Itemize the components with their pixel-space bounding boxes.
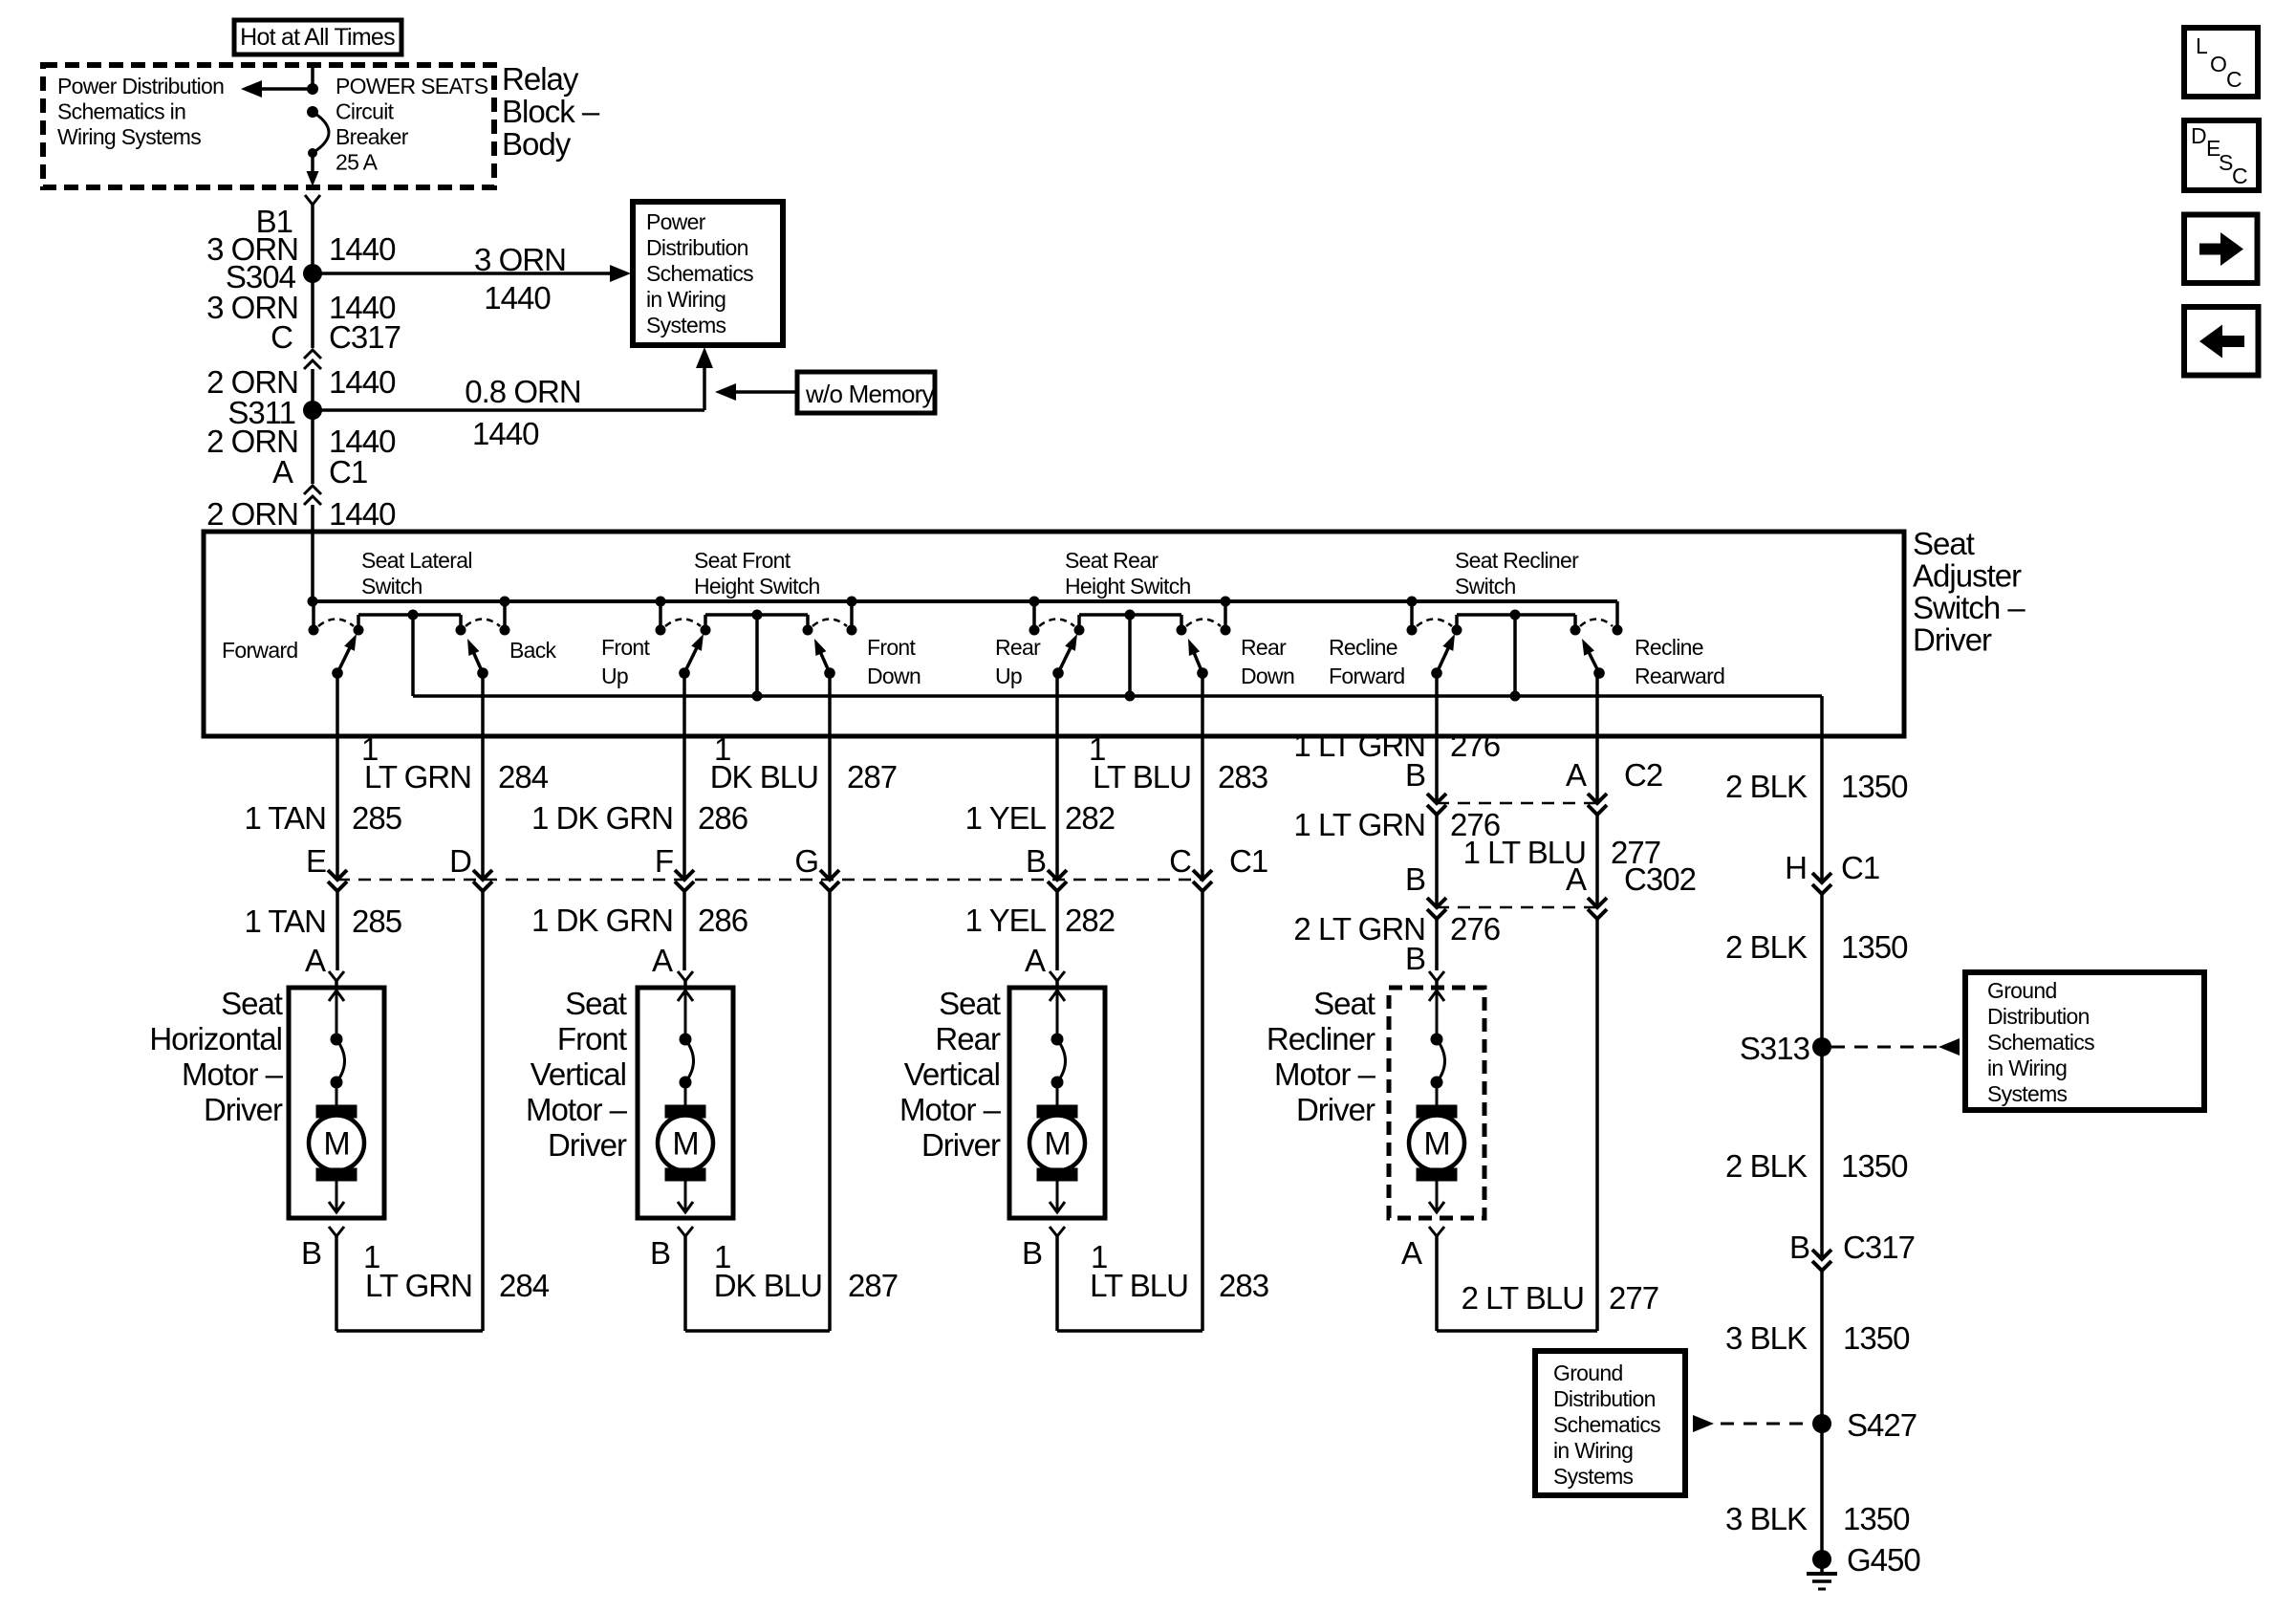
svg-text:Up: Up bbox=[601, 664, 628, 688]
label: pin F (C1) bbox=[655, 843, 673, 879]
wire: F through C1 bbox=[675, 673, 694, 970]
svg-text:Recline: Recline bbox=[1635, 635, 1703, 660]
label: S313 bbox=[1740, 1031, 1809, 1066]
label: 2 LT GRN 276 (below C302) bbox=[1293, 911, 1500, 947]
seat front height switch bbox=[656, 597, 857, 702]
label: seat recliner motor - driver bbox=[1267, 986, 1376, 1127]
svg-text:0.8 ORN: 0.8 ORN bbox=[465, 374, 580, 409]
svg-text:A: A bbox=[1566, 861, 1587, 897]
svg-text:in Wiring: in Wiring bbox=[646, 287, 726, 312]
label: 0.8 ORN bbox=[465, 374, 580, 409]
svg-text:C302: C302 bbox=[1624, 861, 1696, 897]
svg-text:in Wiring: in Wiring bbox=[1987, 1056, 2067, 1080]
seat rear height switch bbox=[1029, 597, 1231, 702]
svg-text:Seat: Seat bbox=[1313, 986, 1375, 1021]
label: pin B (seat front vertical motor - driver) bbox=[650, 1235, 670, 1271]
svg-text:2 LT GRN: 2 LT GRN bbox=[1293, 911, 1425, 947]
label: 3 ORN (branch) bbox=[474, 242, 566, 277]
svg-text:D: D bbox=[449, 843, 471, 879]
label: Seat Lateral Switch bbox=[361, 548, 472, 599]
svg-text:G450: G450 bbox=[1847, 1542, 1920, 1578]
wire: G through C1 bbox=[820, 673, 839, 1331]
label: pin B (C302) bbox=[1405, 861, 1425, 897]
label: seat rear vertical motor - driver bbox=[899, 986, 1002, 1163]
svg-text:E: E bbox=[306, 843, 326, 879]
svg-text:Seat: Seat bbox=[1913, 526, 1975, 561]
label: pin E (C1) bbox=[306, 843, 326, 879]
label: Rear Down bbox=[1241, 635, 1294, 688]
svg-text:Driver: Driver bbox=[1296, 1092, 1375, 1127]
legend box: arrow left bbox=[2184, 307, 2259, 376]
svg-text:Wiring Systems: Wiring Systems bbox=[57, 124, 201, 149]
label: 1440 (below S311) bbox=[329, 424, 396, 459]
label: 2 BLK 1350 (second) bbox=[1725, 929, 1908, 965]
svg-text:C1: C1 bbox=[329, 454, 367, 490]
label: 1 LT GRN 284 (circuit 284 upper) bbox=[361, 731, 549, 795]
svg-text:Forward: Forward bbox=[1329, 664, 1405, 688]
label: pin A (seat front vertical motor) bbox=[652, 943, 673, 978]
label: 1 LT BLU 283 (motor loop) bbox=[1090, 1239, 1268, 1303]
svg-text:A: A bbox=[305, 943, 326, 978]
svg-text:285: 285 bbox=[352, 800, 401, 836]
label: C1 connector (main feed) bbox=[329, 454, 367, 490]
label: 2 ORN (below C1) bbox=[206, 496, 298, 532]
svg-text:Seat Recliner: Seat Recliner bbox=[1455, 548, 1579, 573]
wire: bus inside switch bbox=[313, 599, 1617, 603]
label: 1 TAN 285 (above C1) bbox=[244, 800, 401, 836]
svg-text:Rearward: Rearward bbox=[1635, 664, 1724, 688]
svg-text:Motor –: Motor – bbox=[899, 1092, 1002, 1127]
label: 2 LT BLU 277 (motor loop) bbox=[1462, 1280, 1659, 1316]
label: 1 LT GRN 276 (above C2) bbox=[1293, 728, 1500, 763]
node: bus entry junction bbox=[308, 597, 318, 607]
svg-text:Front: Front bbox=[557, 1021, 627, 1056]
svg-text:C1: C1 bbox=[1229, 843, 1267, 879]
svg-text:2 ORN: 2 ORN bbox=[206, 496, 298, 532]
svg-text:Recliner: Recliner bbox=[1267, 1021, 1375, 1056]
flag box: Hot at All Times bbox=[234, 20, 401, 54]
svg-text:1 TAN: 1 TAN bbox=[244, 903, 326, 939]
svg-text:C317: C317 bbox=[1843, 1230, 1915, 1265]
svg-text:M: M bbox=[1044, 1126, 1070, 1163]
label: pin B (seat horizontal motor - driver) bbox=[301, 1235, 321, 1271]
connector C317 inline chevrons bbox=[304, 273, 321, 410]
svg-text:Horizontal: Horizontal bbox=[149, 1021, 282, 1056]
svg-text:C: C bbox=[2226, 67, 2242, 92]
svg-text:Seat Front: Seat Front bbox=[694, 548, 791, 573]
label: 1 LT GRN 276 (below C2) bbox=[1293, 807, 1500, 842]
svg-text:Systems: Systems bbox=[1553, 1464, 1634, 1489]
label: 1 DK GRN 286 (above C1) bbox=[531, 800, 747, 836]
svg-text:Body: Body bbox=[502, 126, 572, 162]
label: G450 bbox=[1847, 1542, 1920, 1578]
svg-text:Driver: Driver bbox=[1913, 622, 1992, 658]
box: Ground Distribution Schematics in Wiring Systems (right) bbox=[1965, 972, 2204, 1110]
svg-text:2 BLK: 2 BLK bbox=[1725, 769, 1808, 804]
box: Power Distribution Schematics in Wiring Systems bbox=[633, 202, 783, 345]
svg-text:284: 284 bbox=[498, 759, 549, 795]
ground G450 bbox=[1807, 1550, 1837, 1589]
legend box: DESC bbox=[2184, 120, 2259, 190]
label: 2 ORN (below S311) bbox=[206, 424, 298, 459]
label: pin B / C317 bbox=[1789, 1230, 1915, 1265]
label: 1 DK BLU 287 (circuit 287 upper) bbox=[710, 731, 897, 795]
label: 1 YEL 282 (above C1) bbox=[965, 800, 1115, 836]
svg-text:Seat: Seat bbox=[221, 986, 283, 1021]
label: Back bbox=[509, 638, 557, 663]
wire: recliner A through C2 and C302 bbox=[1588, 673, 1607, 1331]
label: Seat Recliner Switch bbox=[1455, 548, 1579, 599]
label: 1 LT GRN 284 (motor loop) bbox=[363, 1239, 550, 1303]
svg-text:287: 287 bbox=[848, 1268, 898, 1303]
label: 1 LT BLU 283 (circuit 283 upper) bbox=[1089, 731, 1267, 795]
svg-text:C2: C2 bbox=[1624, 757, 1662, 793]
label: pin A (seat horizontal motor) bbox=[305, 943, 326, 978]
label: seat horizontal motor - driver bbox=[149, 986, 283, 1127]
label: pin H / C1 bbox=[1785, 850, 1879, 885]
svg-text:Up: Up bbox=[995, 664, 1022, 688]
label: pin B (C2) bbox=[1405, 757, 1425, 793]
label: 2 BLK 1350 (third) bbox=[1725, 1148, 1908, 1184]
svg-text:POWER SEATS: POWER SEATS bbox=[336, 74, 488, 98]
wire: S304 branch to power distribution bbox=[313, 265, 631, 282]
svg-text:Systems: Systems bbox=[646, 313, 726, 337]
svg-text:3 ORN: 3 ORN bbox=[474, 242, 566, 277]
svg-text:Rear: Rear bbox=[1241, 635, 1287, 660]
svg-text:Seat Lateral: Seat Lateral bbox=[361, 548, 472, 573]
svg-text:A: A bbox=[1401, 1235, 1422, 1271]
svg-text:287: 287 bbox=[847, 759, 897, 795]
svg-text:Schematics: Schematics bbox=[1987, 1030, 2094, 1055]
svg-text:Distribution: Distribution bbox=[1553, 1386, 1656, 1411]
label: S304 bbox=[226, 259, 296, 294]
svg-text:276: 276 bbox=[1450, 911, 1500, 947]
label: 1440 (below C1) bbox=[329, 496, 396, 532]
seat lateral switch bbox=[309, 597, 510, 697]
label: Recline Rearward bbox=[1635, 635, 1724, 688]
label: C317 connector bbox=[329, 319, 401, 355]
svg-text:1440: 1440 bbox=[484, 280, 551, 316]
svg-text:Front: Front bbox=[601, 635, 651, 660]
seat recliner switch bbox=[1407, 597, 1623, 702]
label: 3 ORN (above S304) bbox=[206, 231, 298, 267]
svg-text:1 DK GRN: 1 DK GRN bbox=[531, 800, 673, 836]
motor: seat front vertical motor - driver bbox=[638, 971, 830, 1331]
svg-text:G: G bbox=[794, 843, 818, 879]
svg-text:1 DK GRN: 1 DK GRN bbox=[531, 903, 673, 938]
svg-text:1440: 1440 bbox=[329, 231, 396, 267]
svg-text:1350: 1350 bbox=[1843, 1501, 1910, 1536]
svg-text:Hot at All Times: Hot at All Times bbox=[240, 24, 395, 51]
svg-text:Vertical: Vertical bbox=[904, 1056, 1000, 1092]
node S427 splice bbox=[1812, 1414, 1831, 1433]
svg-text:M: M bbox=[672, 1126, 698, 1163]
label: pin C bbox=[271, 319, 292, 355]
svg-text:DK BLU: DK BLU bbox=[710, 759, 818, 795]
label: 1440 (above S304) bbox=[329, 231, 396, 267]
pin B1 connector chevron bbox=[305, 195, 320, 273]
svg-text:C317: C317 bbox=[329, 319, 401, 355]
svg-text:LT GRN: LT GRN bbox=[365, 1268, 472, 1303]
label: 3 ORN (below S304) bbox=[206, 290, 298, 325]
label: Front Down bbox=[867, 635, 921, 688]
svg-text:Down: Down bbox=[1241, 664, 1294, 688]
svg-text:B: B bbox=[1405, 757, 1425, 793]
label: Seat Rear Height Switch bbox=[1065, 548, 1191, 599]
svg-text:B: B bbox=[1405, 861, 1425, 897]
svg-text:A: A bbox=[1025, 943, 1046, 978]
svg-text:B: B bbox=[301, 1235, 321, 1271]
label: S427 bbox=[1847, 1407, 1917, 1443]
svg-text:276: 276 bbox=[1450, 728, 1500, 763]
svg-text:Front: Front bbox=[867, 635, 917, 660]
svg-text:Seat: Seat bbox=[939, 986, 1001, 1021]
node S304 splice bbox=[303, 264, 322, 283]
label: 1440 (branch) bbox=[484, 280, 551, 316]
wire: C through C1 bbox=[1193, 673, 1212, 1331]
label: pin A (seat rear vertical motor) bbox=[1025, 943, 1046, 978]
svg-text:Ground: Ground bbox=[1987, 978, 2057, 1003]
svg-text:1 YEL: 1 YEL bbox=[965, 800, 1047, 836]
label: Power Distribution Schematics in Wiring Systems (relay box) bbox=[57, 74, 224, 149]
svg-text:M: M bbox=[323, 1126, 349, 1163]
svg-text:1440: 1440 bbox=[329, 364, 396, 400]
label: pin B (C1) bbox=[1026, 843, 1046, 879]
svg-text:Block –: Block – bbox=[502, 94, 600, 129]
label: pin B (seat rear vertical motor - driver) bbox=[1022, 1235, 1042, 1271]
svg-text:Rear: Rear bbox=[935, 1021, 1001, 1056]
relay block dashed box (Relay Block - Body) bbox=[43, 65, 494, 187]
label: seat front vertical motor - driver bbox=[526, 986, 628, 1163]
svg-text:Motor –: Motor – bbox=[526, 1092, 628, 1127]
svg-text:Switch –: Switch – bbox=[1913, 590, 2025, 625]
svg-text:Down: Down bbox=[867, 664, 921, 688]
svg-text:C: C bbox=[2232, 163, 2247, 188]
svg-text:B: B bbox=[1789, 1230, 1809, 1265]
label: Seat Front Height Switch bbox=[694, 548, 820, 599]
label: Forward bbox=[222, 638, 298, 663]
svg-text:S: S bbox=[2219, 150, 2233, 175]
svg-text:Adjuster: Adjuster bbox=[1913, 558, 2022, 594]
svg-text:C: C bbox=[1169, 843, 1191, 879]
svg-text:A: A bbox=[652, 943, 673, 978]
wire: D through C1 bbox=[473, 673, 492, 1331]
svg-text:Power Distribution: Power Distribution bbox=[57, 74, 224, 98]
node: breaker feed junction bbox=[307, 83, 318, 95]
label: pin A / C302 bbox=[1566, 861, 1696, 897]
svg-text:DK BLU: DK BLU bbox=[714, 1268, 822, 1303]
svg-text:Power: Power bbox=[646, 209, 706, 234]
svg-text:w/o Memory: w/o Memory bbox=[805, 380, 935, 408]
svg-text:2 BLK: 2 BLK bbox=[1725, 929, 1808, 965]
connector C2 dashed line bbox=[1437, 802, 1597, 805]
label: 1 YEL 282 (below C1) bbox=[965, 903, 1115, 938]
label: pin A / C2 bbox=[1566, 757, 1662, 793]
svg-text:C1: C1 bbox=[1841, 850, 1879, 885]
legend box: LOC bbox=[2184, 28, 2258, 97]
svg-text:LT BLU: LT BLU bbox=[1090, 1268, 1188, 1303]
arrow to Power Distribution Schematics (left) bbox=[241, 80, 313, 98]
label: pin A bbox=[272, 454, 293, 490]
svg-text:LT GRN: LT GRN bbox=[364, 759, 471, 795]
label: 2 ORN (above S311) bbox=[206, 364, 298, 400]
label: 2 BLK 1350 (top) bbox=[1725, 769, 1908, 804]
svg-text:O: O bbox=[2210, 52, 2226, 76]
svg-text:Seat: Seat bbox=[565, 986, 627, 1021]
label: pin A (seat recliner motor - driver) bbox=[1401, 1235, 1422, 1271]
node S313 splice bbox=[1812, 1037, 1831, 1056]
box: Ground Distribution Schematics in Wiring Systems (left) bbox=[1535, 1351, 1685, 1495]
wire: hot feed into breaker bbox=[311, 65, 314, 91]
svg-text:Schematics: Schematics bbox=[1553, 1412, 1660, 1437]
label: B1 bbox=[256, 204, 292, 239]
svg-text:L: L bbox=[2196, 33, 2208, 58]
motor: seat recliner motor - driver bbox=[1389, 971, 1597, 1331]
svg-text:C: C bbox=[271, 319, 292, 355]
svg-text:1350: 1350 bbox=[1841, 929, 1908, 965]
svg-text:Systems: Systems bbox=[1987, 1081, 2068, 1106]
label: pin C (C1) bbox=[1169, 843, 1191, 879]
svg-text:1440: 1440 bbox=[329, 496, 396, 532]
svg-text:Ground: Ground bbox=[1553, 1361, 1623, 1385]
svg-text:Breaker: Breaker bbox=[336, 124, 409, 149]
svg-text:1 YEL: 1 YEL bbox=[965, 903, 1047, 938]
svg-text:284: 284 bbox=[499, 1268, 550, 1303]
svg-text:3 BLK: 3 BLK bbox=[1725, 1501, 1808, 1536]
svg-text:1 TAN: 1 TAN bbox=[244, 800, 326, 836]
label: 1 LT BLU 277 bbox=[1463, 835, 1661, 870]
svg-text:Driver: Driver bbox=[548, 1127, 627, 1163]
wire: recliner B through C2 and C302 bbox=[1427, 673, 1446, 970]
connector C1 inline chevrons bbox=[304, 410, 321, 601]
label: POWER SEATS Circuit Breaker 25 A bbox=[336, 74, 488, 175]
svg-text:1350: 1350 bbox=[1843, 1320, 1910, 1356]
svg-text:2 LT BLU: 2 LT BLU bbox=[1462, 1280, 1584, 1316]
svg-text:Vertical: Vertical bbox=[531, 1056, 626, 1092]
svg-text:286: 286 bbox=[698, 903, 747, 938]
svg-text:1440: 1440 bbox=[472, 416, 539, 451]
label: 1 DK GRN 286 (below C1) bbox=[531, 903, 747, 938]
wire: ground wire through C1 pin H bbox=[1812, 873, 1831, 1559]
svg-text:Schematics in: Schematics in bbox=[57, 99, 185, 124]
svg-text:2 BLK: 2 BLK bbox=[1725, 1148, 1808, 1184]
label: pin D (C1) bbox=[449, 843, 471, 879]
component box: Seat Adjuster Switch - Driver bbox=[204, 532, 1904, 736]
connector C302 dashed line bbox=[1437, 906, 1597, 909]
dashed branch: ground distribution to S427 bbox=[1693, 1415, 1810, 1432]
svg-text:B: B bbox=[650, 1235, 670, 1271]
dashed branch: S313 to ground distribution bbox=[1831, 1038, 1960, 1056]
svg-text:Motor –: Motor – bbox=[1274, 1056, 1376, 1092]
motor: seat horizontal motor - driver bbox=[289, 971, 483, 1331]
motor: seat rear vertical motor - driver bbox=[1009, 971, 1202, 1331]
svg-text:S313: S313 bbox=[1740, 1031, 1809, 1066]
svg-text:Switch: Switch bbox=[361, 574, 422, 599]
svg-text:Switch: Switch bbox=[1455, 574, 1516, 599]
svg-text:Distribution: Distribution bbox=[646, 235, 748, 260]
label: 1440 (above S311) bbox=[329, 364, 396, 400]
label: 1440 (0.8 ORN) bbox=[472, 416, 539, 451]
svg-text:B: B bbox=[1026, 843, 1046, 879]
label: 1 TAN 285 (below C1) bbox=[244, 903, 401, 939]
label: 1440 (below S304) bbox=[329, 290, 396, 325]
label: Front Up bbox=[601, 635, 651, 688]
label: Relay Block - Body bbox=[502, 61, 600, 162]
svg-text:282: 282 bbox=[1065, 903, 1115, 938]
svg-text:Distribution: Distribution bbox=[1987, 1004, 2090, 1029]
node S311 splice bbox=[303, 401, 322, 420]
svg-text:1350: 1350 bbox=[1841, 1148, 1908, 1184]
svg-text:282: 282 bbox=[1065, 800, 1115, 836]
wire: B through C1 bbox=[1048, 673, 1067, 970]
box: w/o Memory bbox=[797, 372, 935, 413]
label: 1 DK BLU 287 (motor loop) bbox=[714, 1239, 898, 1303]
svg-text:25 A: 25 A bbox=[336, 150, 379, 175]
svg-text:285: 285 bbox=[352, 903, 401, 939]
svg-text:H: H bbox=[1785, 850, 1807, 885]
label: Seat Adjuster Switch - Driver bbox=[1913, 526, 2025, 658]
wire: S311 branch (0.8 ORN) to power distribution bbox=[313, 347, 713, 410]
svg-text:LT BLU: LT BLU bbox=[1093, 759, 1191, 795]
label: pin B (seat recliner motor) bbox=[1405, 941, 1425, 976]
svg-text:A: A bbox=[272, 454, 293, 490]
label: pin G (C1) bbox=[794, 843, 818, 879]
legend box: arrow right bbox=[2184, 215, 2258, 284]
label: S311 bbox=[227, 395, 295, 430]
svg-text:Schematics: Schematics bbox=[646, 261, 753, 286]
svg-text:F: F bbox=[655, 843, 673, 879]
svg-text:1350: 1350 bbox=[1841, 769, 1908, 804]
wire: E through C1 bbox=[328, 673, 347, 970]
svg-text:283: 283 bbox=[1218, 759, 1267, 795]
label: Rear Up bbox=[995, 635, 1041, 688]
svg-text:277: 277 bbox=[1609, 1280, 1658, 1316]
svg-text:Driver: Driver bbox=[921, 1127, 1001, 1163]
svg-text:1 LT GRN: 1 LT GRN bbox=[1293, 807, 1425, 842]
svg-text:Forward: Forward bbox=[222, 638, 298, 663]
arrow: w/o Memory to riser bbox=[715, 383, 797, 401]
svg-text:Rear: Rear bbox=[995, 635, 1041, 660]
svg-text:Recline: Recline bbox=[1329, 635, 1397, 660]
svg-text:Relay: Relay bbox=[502, 61, 579, 97]
svg-text:in Wiring: in Wiring bbox=[1553, 1438, 1633, 1463]
svg-text:D: D bbox=[2191, 123, 2206, 148]
svg-text:Motor –: Motor – bbox=[182, 1056, 284, 1092]
svg-text:A: A bbox=[1566, 757, 1587, 793]
svg-text:B: B bbox=[1022, 1235, 1042, 1271]
svg-text:M: M bbox=[1423, 1126, 1449, 1163]
circuit breaker: POWER SEATS 25 A bbox=[307, 106, 330, 186]
label: 3 BLK 1350 (below S427) bbox=[1725, 1501, 1910, 1536]
connector C1 dashed line bbox=[337, 879, 1202, 882]
label: 3 BLK 1350 (above S427) bbox=[1725, 1320, 1910, 1356]
label: C1 (body connector) bbox=[1229, 843, 1267, 879]
svg-text:286: 286 bbox=[698, 800, 747, 836]
svg-text:Circuit: Circuit bbox=[336, 99, 395, 124]
svg-text:3 BLK: 3 BLK bbox=[1725, 1320, 1808, 1356]
svg-text:Seat Rear: Seat Rear bbox=[1065, 548, 1159, 573]
svg-text:Height Switch: Height Switch bbox=[694, 574, 820, 599]
svg-text:Driver: Driver bbox=[204, 1092, 283, 1127]
svg-text:Back: Back bbox=[509, 638, 557, 663]
svg-text:S427: S427 bbox=[1847, 1407, 1917, 1443]
svg-text:283: 283 bbox=[1219, 1268, 1268, 1303]
wire: switch common return (lower bus) bbox=[413, 696, 1822, 882]
svg-text:Height Switch: Height Switch bbox=[1065, 574, 1191, 599]
label: Recline Forward bbox=[1329, 635, 1405, 688]
